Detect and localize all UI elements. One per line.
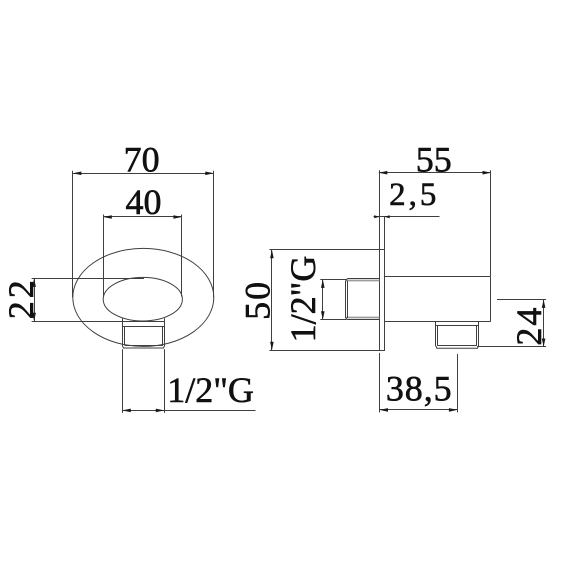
svg-text:55: 55 — [416, 139, 452, 179]
svg-text:40: 40 — [126, 182, 162, 222]
svg-text:1/2"G: 1/2"G — [167, 370, 254, 410]
svg-text:2,5: 2,5 — [389, 177, 439, 213]
svg-text:38,5: 38,5 — [386, 368, 453, 408]
svg-text:50: 50 — [238, 280, 278, 320]
svg-text:70: 70 — [124, 139, 160, 179]
svg-text:22: 22 — [1, 277, 41, 319]
svg-text:1/2"G: 1/2"G — [283, 256, 323, 343]
svg-text:24: 24 — [509, 306, 549, 346]
